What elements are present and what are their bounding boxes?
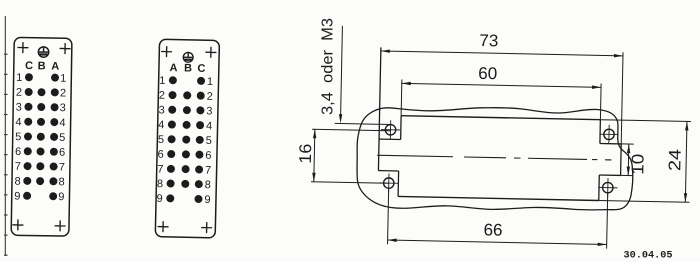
cutout right inner verticals xyxy=(599,120,601,144)
earth symbol connector 1 xyxy=(38,47,49,58)
cutout left inner verticals xyxy=(400,116,402,140)
svg-text:9: 9 xyxy=(156,193,162,205)
svg-text:1: 1 xyxy=(207,76,213,88)
73 extension right xyxy=(621,52,623,144)
contact pins connector 2 xyxy=(169,76,177,84)
cutout left outer edge / 73 extension xyxy=(378,47,380,170)
mounting hole bottom-right xyxy=(598,178,618,198)
panel cutout dimension drawing xyxy=(294,25,693,250)
svg-text:6: 6 xyxy=(205,150,211,162)
dimension 24 xyxy=(600,120,691,122)
cutout bottom edge xyxy=(398,196,599,200)
column labels A B C xyxy=(169,62,205,75)
svg-text:A: A xyxy=(169,62,177,74)
svg-text:6: 6 xyxy=(15,146,21,158)
svg-text:3: 3 xyxy=(158,104,164,116)
svg-text:B: B xyxy=(184,62,192,74)
svg-text:8: 8 xyxy=(14,176,20,188)
svg-text:6: 6 xyxy=(157,149,163,161)
cutout right bulge xyxy=(600,143,621,145)
svg-text:8: 8 xyxy=(205,179,211,191)
cutout left step lines xyxy=(379,138,401,140)
earth symbol connector 2 xyxy=(183,52,193,62)
svg-text:8: 8 xyxy=(157,178,163,190)
svg-text:6: 6 xyxy=(59,147,65,159)
svg-text:30.04.05: 30.04.05 xyxy=(624,250,673,262)
svg-text:1: 1 xyxy=(60,73,66,85)
connector face view 2 (columns A B C) xyxy=(155,39,219,238)
alignment cross marks connector 1 xyxy=(17,42,28,53)
connector face view 1 (columns C B A) xyxy=(11,37,72,236)
svg-text:3: 3 xyxy=(206,105,212,117)
svg-text:60: 60 xyxy=(478,64,497,83)
svg-text:1: 1 xyxy=(159,75,165,87)
dimension 16 xyxy=(312,129,390,131)
svg-text:C: C xyxy=(25,60,33,72)
svg-text:66: 66 xyxy=(483,220,502,239)
dimension 60 xyxy=(402,83,601,87)
svg-text:2: 2 xyxy=(60,87,66,99)
svg-text:5: 5 xyxy=(59,132,65,144)
alignment cross marks connector 2 xyxy=(161,46,172,57)
svg-text:7: 7 xyxy=(15,161,21,173)
svg-text:7: 7 xyxy=(59,161,65,173)
row numbers connector 1 xyxy=(14,72,66,203)
svg-text:5: 5 xyxy=(158,134,164,146)
svg-text:3: 3 xyxy=(60,102,66,114)
mounting hole bottom-left xyxy=(379,173,399,193)
scan paper edge line xyxy=(4,16,8,256)
svg-text:9: 9 xyxy=(58,191,64,203)
contact pins connector 1 xyxy=(25,73,33,81)
svg-text:7: 7 xyxy=(157,163,163,175)
svg-text:4: 4 xyxy=(206,120,212,132)
svg-text:B: B xyxy=(38,60,46,72)
svg-text:1: 1 xyxy=(16,72,22,84)
svg-text:5: 5 xyxy=(206,135,212,147)
leader 3,4 oder M3 xyxy=(335,123,391,124)
svg-text:2: 2 xyxy=(159,90,165,102)
row numbers connector 2 xyxy=(156,75,213,206)
svg-text:4: 4 xyxy=(15,116,21,128)
centre line (dash-dot, hand pattern) xyxy=(377,155,453,157)
dimension 66 xyxy=(388,189,389,244)
column labels C B A xyxy=(25,60,59,73)
svg-text:2: 2 xyxy=(207,91,213,103)
svg-text:3,4 oder M3: 3,4 oder M3 xyxy=(320,18,337,115)
svg-text:5: 5 xyxy=(15,131,21,143)
svg-text:9: 9 xyxy=(204,194,210,206)
svg-text:4: 4 xyxy=(158,119,164,131)
svg-text:7: 7 xyxy=(205,164,211,176)
svg-text:2: 2 xyxy=(16,87,22,99)
svg-text:73: 73 xyxy=(479,31,498,50)
svg-text:10: 10 xyxy=(628,154,647,175)
mounting hole top-left xyxy=(381,120,401,140)
dimension 10 xyxy=(621,143,634,145)
svg-text:3: 3 xyxy=(16,101,22,113)
cutout top edge xyxy=(401,116,600,120)
svg-text:C: C xyxy=(197,63,205,75)
svg-text:9: 9 xyxy=(14,190,20,202)
panel break outline (wavy) xyxy=(356,105,634,213)
svg-text:8: 8 xyxy=(58,176,64,188)
mounting hole top-right xyxy=(599,125,619,145)
dimension 73 xyxy=(381,51,623,56)
svg-text:A: A xyxy=(51,60,59,72)
svg-text:16: 16 xyxy=(296,143,315,163)
svg-text:4: 4 xyxy=(59,117,65,129)
svg-text:24: 24 xyxy=(665,149,684,171)
